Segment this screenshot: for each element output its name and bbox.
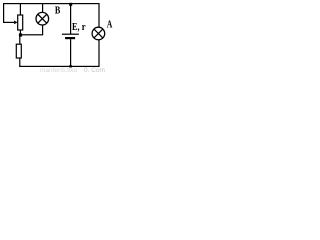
lamp B top stub (x=42.5, y 3..12) [42,3,43,12]
battery E long plate [62,34,79,35]
wire bottom (y=66, x 19..99) [19,66,99,67]
lamp B circle [36,12,49,25]
resistor R2 bottom lead (y 58..66) [19,58,20,67]
lamp B bottom lead (x=42.5, y 25..35) [42,25,43,35]
svg-text:r: r [82,21,86,33]
background [0,0,118,73]
lamp A bottom lead (x=99, y 40..66) [98,40,99,67]
wire left (x=3, y 3..22) [3,3,4,23]
svg-text:B: B [55,4,61,16]
battery top stub (x=70.5, y 3..34) [70,3,71,34]
rheostat slider arrowhead [14,21,17,25]
junction dot battery bottom [69,65,72,67]
svg-text:A: A [107,20,113,31]
wire slider horizontal (y=22, x 3..14) [3,22,14,23]
lamp B cross [38,14,47,23]
lamp A top lead (x=99, y 3..27) [98,3,99,27]
lamp A cross [94,29,103,38]
rheostat R1 top lead (x=20.3, y 3..15) [20,3,21,15]
resistor R2 top lead (x=19.7, y 36..44) [19,36,20,44]
resistor R2 body [16,44,21,58]
lamp A circle [92,27,105,40]
battery node dot on top wire [69,3,72,6]
wire middle (y=35, x 21..43) [21,34,44,35]
junction dot node [19,33,22,36]
rheostat R1 bottom lead (y 30..34) [20,30,21,35]
svg-text:manfen5.tiku: manfen5.tiku [40,67,78,73]
svg-text:E,: E, [72,21,80,33]
battery E short thick plate [65,37,75,39]
wire top (y=3, x 3..99) [3,3,99,4]
svg-text:0. Com: 0. Com [84,67,105,73]
battery bottom lead (x=70.5, y 39..66) [70,39,71,66]
rheostat R1 body [18,15,23,30]
